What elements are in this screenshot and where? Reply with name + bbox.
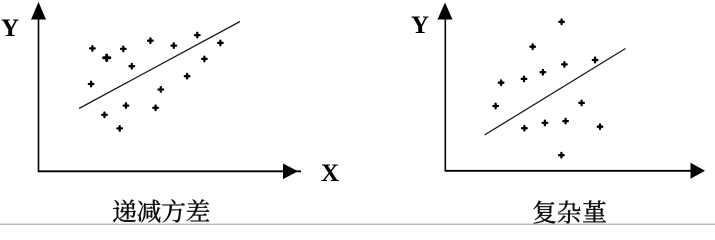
trend line (right) [485, 49, 626, 136]
scatter dot L1 [90, 46, 95, 51]
scatter dot R10 [543, 121, 548, 126]
scatter dot R7 [593, 58, 598, 63]
scatter dot R6 [562, 62, 567, 67]
y-axis arrowhead (left) [31, 2, 46, 20]
x-axis arrowhead (right) [691, 163, 706, 179]
caption left: 递减方差 [113, 199, 209, 222]
trend line (left) [79, 22, 240, 109]
scatter dot R3 [499, 80, 504, 85]
scatter dot R1 [559, 20, 564, 25]
scatter dot R4 [522, 77, 527, 82]
scatter dot R2 [530, 44, 535, 49]
scatter dot L2 [121, 47, 126, 52]
scatter dot R8 [493, 104, 498, 109]
scatter dot R5 [541, 70, 546, 75]
scatter dot R9 [522, 126, 527, 131]
svg-text:Y: Y [1, 15, 19, 42]
scatter dot L13 [185, 74, 190, 79]
scatter dot L14 [159, 87, 164, 92]
scatter dot L6 [195, 33, 200, 38]
scatter dot L8 [218, 41, 223, 46]
scatter dot L3 [148, 38, 153, 43]
scatter dot L4 [130, 64, 135, 69]
scatter dot L11 [124, 103, 129, 108]
svg-text:Y: Y [411, 12, 429, 39]
scatter dot L5 [172, 43, 177, 48]
scatter dot R14 [559, 153, 564, 158]
scatter dot L7 [202, 57, 207, 62]
scatter dot L9 [89, 82, 94, 87]
scatter dot R11 [563, 119, 568, 124]
svg-text:X: X [321, 160, 339, 187]
scatter dot R12 [579, 101, 584, 106]
y-axis (left) [38, 16, 40, 171]
y-axis (right) [444, 16, 446, 171]
x-axis arrowhead (left) [283, 164, 298, 180]
x-axis (right) [445, 170, 704, 172]
caption right: 复杂(堇) [533, 201, 606, 224]
scatter dot L10 [102, 113, 107, 118]
x-axis (left) [38, 170, 301, 172]
scatter dot R13 [598, 124, 603, 129]
scatter dot L15 [117, 126, 122, 131]
y-axis arrowhead (right) [438, 3, 453, 20]
bottom edge line [0, 224, 715, 225]
scatter dot L16 (bold) [104, 55, 110, 60]
scatter dot L12 [153, 106, 158, 111]
